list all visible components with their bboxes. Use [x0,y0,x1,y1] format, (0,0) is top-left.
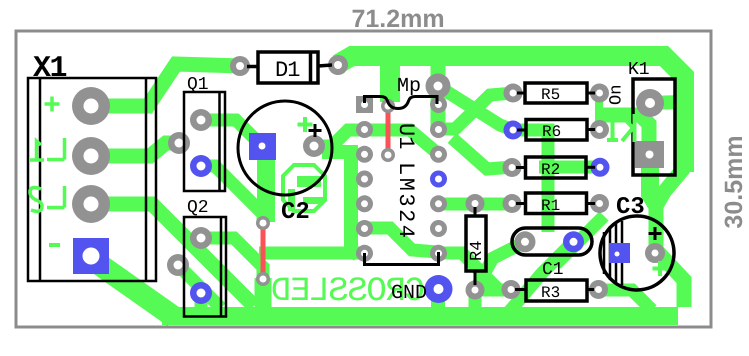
pad R4 top [466,194,485,213]
svg-text:LM324: LM324 [393,162,418,241]
silk green minus X1 [49,243,60,247]
pad R6 right [590,120,609,139]
jumper wire W1 (red) [263,107,388,279]
wire C2 plus pad to U1 pin2 and across to pin13 [314,130,436,152]
pad Q1 base [168,132,190,154]
resistor R4 body (vertical) [466,216,486,271]
pad D1 anode [230,56,250,76]
wire Q1 emitter diagonal to jumper node [201,166,263,224]
svg-text:R1: R1 [541,197,560,215]
diode D1 body [258,52,318,83]
resistor R6 leads [517,129,526,132]
wire K1 coil pad from right vertical [649,102,682,103]
wire stub bus to U1 pin3 [351,148,364,160]
capacitor C3 polarity stripes [604,221,622,285]
wire to R2 left diagonal [452,138,513,169]
svg-text:Q1: Q1 [187,75,209,95]
pad Q2 emitter (blue) [190,282,212,304]
pad U1 pin5 [356,195,373,212]
resistor R1 body [526,193,587,214]
wire GND pad to ground band [431,289,445,312]
svg-text:On: On [608,85,627,105]
op-amp U1 pin7 wire link to pin8 [365,252,439,265]
board outline [16,31,711,327]
wire K1 contact pad down to junction [650,164,656,204]
pad X1.3 [72,185,110,223]
svg-text:R5: R5 [541,86,560,104]
svg-text:Q2: Q2 [187,198,209,218]
OUTLINES [16,31,711,327]
wire Mp node to R6 left diagonal [441,88,513,130]
capacitor C1 body (stadium) [512,228,592,255]
pad R4 bottom [466,281,485,300]
pad X1.1 [72,87,110,125]
pad R3 right [589,280,608,299]
wire band diagonal to C1 right [509,242,573,312]
jumper wire W2 (red) [386,107,391,155]
wire U1 pin10 row to R1 left through R4 top [438,198,513,211]
wire top supply trace D1 cathode to right edge [338,56,684,172]
svg-text:C2: C2 [281,199,310,226]
pad U1 pin3 [356,146,373,163]
wire R5 right to K1 contact pad [598,115,649,157]
svg-text:R3: R3 [541,284,560,302]
pad U1 pin14 [430,96,447,113]
resistor R5 body [525,83,587,103]
pad U1 pin12 [430,146,447,163]
resistor R5 leads [517,92,525,95]
wire X1.3 to ground band diagonal [91,204,254,306]
pad C2 plus [303,135,325,157]
svg-text:U1: U1 [393,123,418,149]
pad Q1 emitter (blue) [190,155,212,177]
svg-text:71.2mm: 71.2mm [351,5,444,33]
pad R2 right (blue) [591,158,610,177]
pad K1 contact (gray square) [635,141,664,168]
connector X1 inner right line [145,78,148,281]
op-amp U1 pin1 wire link to pin14 [365,97,438,109]
pad U1 pin7 [356,245,373,262]
svg-text:GND: GND [391,282,427,305]
diode D1 leads [247,65,258,69]
svg-text:X1: X1 [33,52,67,86]
svg-text:D1: D1 [275,58,300,83]
wire ground band bottom [162,307,678,325]
pad C2 minus (blue square) [249,133,276,160]
wire stub bus to U1 pin5 [351,198,364,210]
pad U1 pin4 [356,171,373,188]
resistor R3 leads [515,288,526,291]
pad U1 pin2 [356,121,373,138]
pad C1 right (blue) [563,231,584,252]
pad U1 pin6 [356,220,373,237]
wire U1 pin6 to pin8 diagonal [364,228,438,252]
transistor Q1 outline [184,92,225,191]
pad GND (blue) [425,275,453,303]
pad jumper W2 top [381,99,395,113]
wire R4 bottom to R3 left [475,284,511,297]
pad X1.2 [72,137,110,175]
wire Q2 emitter to ground band [195,293,208,312]
silk green plus X1 [45,97,60,112]
wire U1 pin13 to R5 left [438,93,513,129]
silk green plus C2 [298,117,313,132]
wire X1.4 blue pad to ground band [93,260,174,317]
transistor Q2 outline [184,217,226,317]
wire trace X1.1 to D1 anode [91,64,242,106]
resistor R1 leads [516,202,526,205]
pad R5 right [590,84,609,103]
wire stub bus to U1 pin4 [351,173,364,185]
pad R1 left [503,194,522,213]
resistor R2 leads [516,166,526,169]
wire jumper W1 bottom to ground band [255,278,272,312]
resistor R4 leads [474,207,477,216]
silk green mirrored L1 row2 [30,138,65,160]
wire diagonal C1 area to C3 [556,216,604,264]
pad Q2 collector [190,227,212,249]
TRACES [91,54,684,317]
svg-text:Mp: Mp [397,75,421,98]
pad Q2 base [167,254,189,276]
svg-text:C1: C1 [542,260,564,280]
wire R3 right to ground band [599,290,653,310]
silk green mirrored text K1 [607,114,635,142]
pad jumper W1 top [256,216,270,230]
pad C1 left [515,231,536,252]
pad R2 left [503,158,522,177]
diode D1 cathode bar [309,52,313,83]
svg-text:C3: C3 [616,194,645,221]
svg-text:K1: K1 [628,60,650,80]
wire Q1 collector to C2 plus pad [201,120,262,146]
pad U1 pin11 (blue) [430,171,447,188]
wire Q2 base pad to ground band [178,265,221,308]
pad U1 pin13 [430,121,447,138]
pad U1 pin9 [430,220,447,237]
svg-text:30.5mm: 30.5mm [720,135,748,228]
pad Q1 collector [190,109,212,131]
pad U1 pin10 [430,195,447,212]
wire U1 pin7 row to left [259,247,364,260]
pad K1 coil [636,89,664,117]
pad R1 right [590,194,609,213]
pad U1 pin1 (square) [356,96,373,113]
connector X1 outline [28,78,156,281]
wire R2 body to blue pad [539,161,600,174]
pad R6 left (blue) [504,121,523,140]
capacitor C2 outline circle [238,101,332,195]
pad D1 cathode [328,55,348,75]
pad R5 left [504,84,523,103]
wire Q2 collector to jumper W1 bottom [201,238,263,278]
capacitor C3 plus mark (black) [649,227,662,240]
wire U1 left bus vertical [322,152,358,255]
connector X1 inner left line [39,78,42,281]
transistor Q1 inner line [218,92,221,191]
capacitor C3 outline circle [600,216,674,290]
PADS [72,55,665,304]
svg-text:R2: R2 [541,161,560,179]
pad R3 left [502,280,521,299]
resistor R3 body [526,280,587,301]
thermal symbol inside C2 [283,165,325,211]
pad Mp measure point [426,74,451,99]
resistor R6 body [526,120,587,141]
silk green mirrored LS row3 [30,186,65,211]
wire stub bus to U1 pin6 [351,222,364,234]
wire X1.2 to Q1 base [91,143,180,156]
pad C3 minus (blue rect) [609,243,630,263]
wire U1 pin8 continue right to ground bus [438,253,497,288]
transistor Q2 inner line [220,217,223,317]
pad jumper W1 bottom [256,272,270,286]
wire branch top trace to Mp pad and U1 pin14 column [431,58,446,131]
wire R4 bottom diagonal to C1 left [475,242,525,290]
pad X1.4 minus (blue square) [73,238,109,274]
relay K1 outline [633,79,675,175]
wire R6 left through R2 vertical [513,130,548,232]
svg-text:R4: R4 [468,241,487,261]
pad jumper W2 bottom [381,148,395,162]
svg-text:R6: R6 [542,123,561,141]
wire branch top trace down to Mp node [380,54,400,102]
silk green plus C3 [653,261,668,276]
pad U1 pin8 [430,245,447,262]
resistor R2 body [526,157,587,178]
wire R4 bottom to ground band [469,290,482,312]
wire right vertical jog down to C3 plus pad [656,168,684,307]
wire R5 right down through R6 right [595,93,603,132]
capacitor C2 plus mark (black) [309,124,322,137]
pad C3 plus [645,243,665,263]
wire C2 negative square down to jumper W1 top [257,150,275,222]
